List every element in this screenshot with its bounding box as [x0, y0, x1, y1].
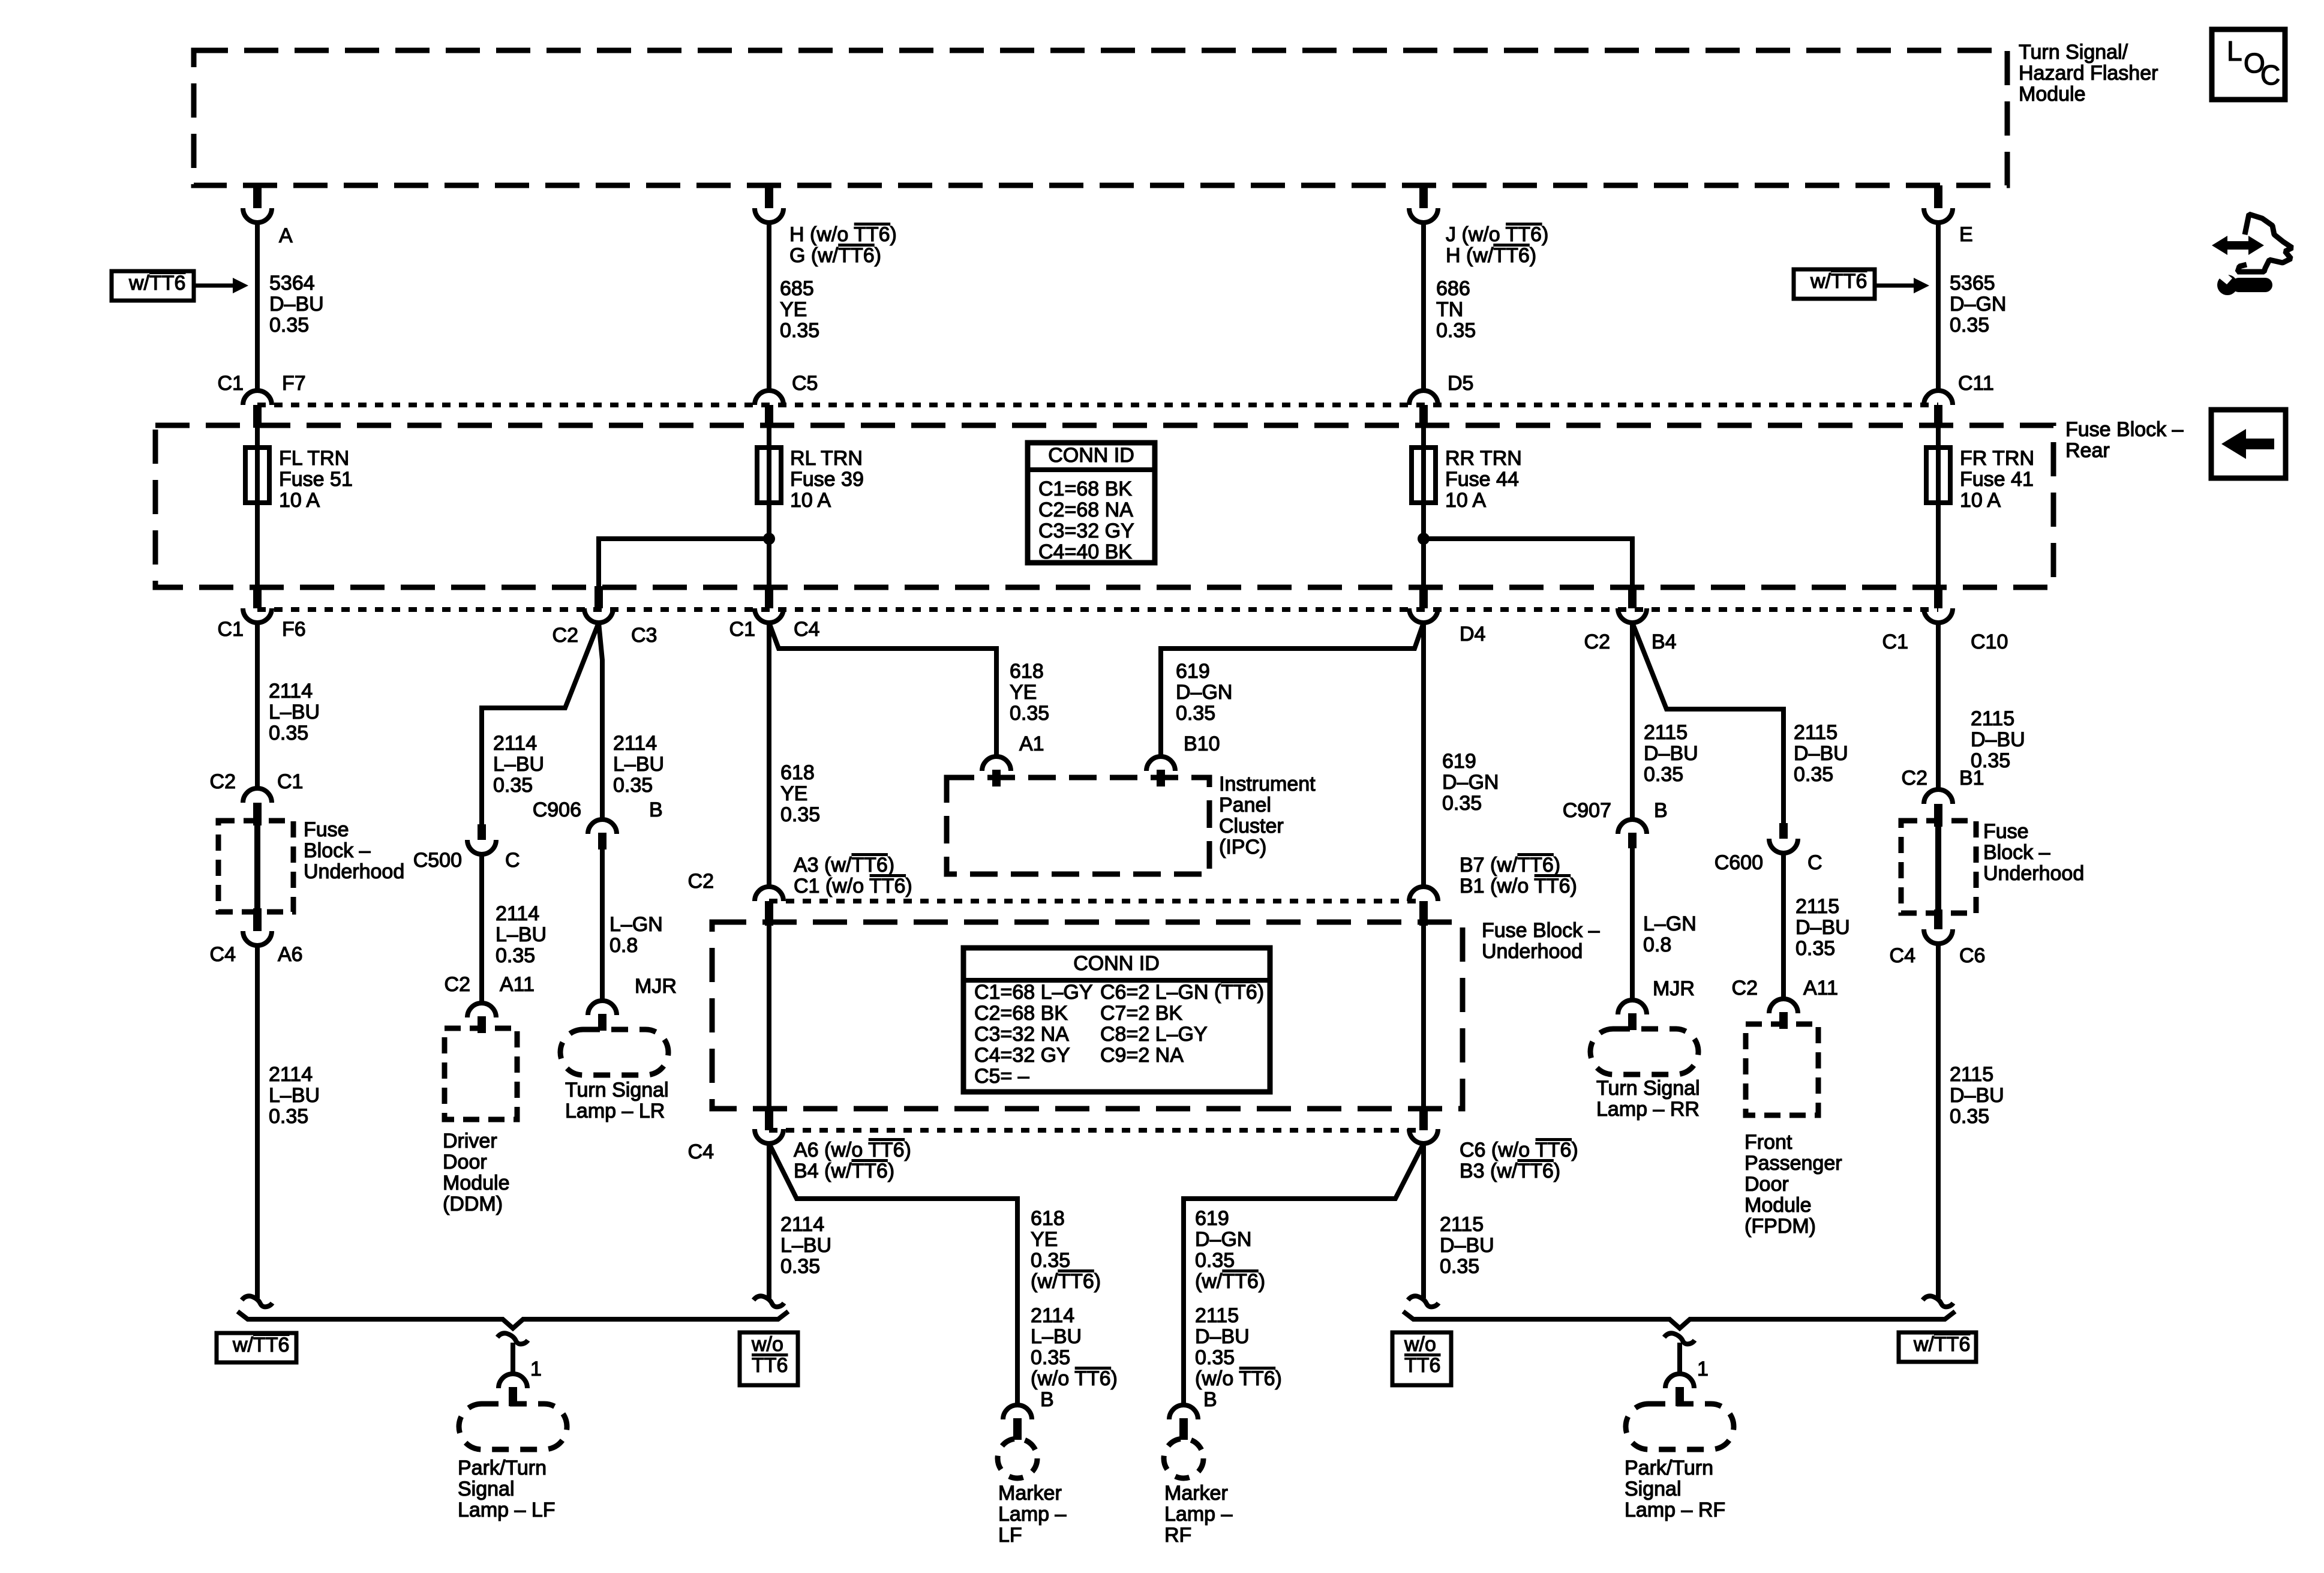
- svg-text:C1: C1: [218, 372, 244, 395]
- svg-text:A1: A1: [1019, 733, 1044, 755]
- svg-text:10 A: 10 A: [790, 489, 831, 512]
- svg-text:Turn Signal: Turn Signal: [1596, 1077, 1700, 1100]
- pin C1/F6 out of Fuse Block Rear: [253, 586, 262, 608]
- svg-text:C5: C5: [792, 372, 818, 395]
- pin B into Marker Lamp RF: [1179, 1418, 1188, 1440]
- svg-text:Cluster: Cluster: [1219, 815, 1284, 837]
- svg-text:2115: 2115: [1795, 895, 1839, 918]
- svg-text:0.8: 0.8: [609, 934, 638, 957]
- svg-text:2114: 2114: [1031, 1304, 1074, 1327]
- svg-text:Fuse 51: Fuse 51: [279, 468, 353, 491]
- svg-text:C1: C1: [218, 618, 244, 641]
- svg-text:(w/o TT6): (w/o TT6): [1031, 1367, 1118, 1390]
- svg-text:C9=2 NA: C9=2 NA: [1100, 1044, 1184, 1067]
- svg-text:10 A: 10 A: [1445, 489, 1486, 512]
- wire L-GN 0.8 (C906 to LR lamp): [600, 849, 605, 1001]
- wire from RL TRN junction to C2/C3 exit: [599, 539, 769, 587]
- svg-text:2115: 2115: [1644, 721, 1688, 744]
- svg-text:L–BU: L–BU: [496, 923, 547, 946]
- svg-text:C2: C2: [1732, 977, 1758, 999]
- connector dome B (Marker RF): [1169, 1405, 1198, 1419]
- svg-text:Underhood: Underhood: [1983, 862, 2084, 885]
- svg-text:w/TT6: w/TT6: [232, 1334, 289, 1356]
- svg-text:RF: RF: [1164, 1524, 1191, 1547]
- svg-text:Fuse 41: Fuse 41: [1960, 468, 2034, 491]
- svg-text:Module: Module: [443, 1172, 510, 1194]
- Fuse Block - Underhood box (middle): [712, 922, 1463, 1109]
- pin C4/A6-B4 out of underhood box: [765, 1107, 773, 1130]
- fuse FR TRN Fuse 41: [1936, 428, 1941, 586]
- svg-text:Passenger: Passenger: [1744, 1152, 1842, 1175]
- svg-text:D–BU: D–BU: [1440, 1234, 1494, 1257]
- svg-text:Turn Signal: Turn Signal: [565, 1079, 669, 1101]
- svg-text:2114: 2114: [269, 1063, 313, 1086]
- svg-text:C8=2 L–GY: C8=2 L–GY: [1100, 1023, 1208, 1046]
- svg-text:619: 619: [1176, 660, 1210, 683]
- pin C11 into Fuse Block Rear: [1934, 405, 1942, 428]
- pin D4 out of Fuse Block Rear: [1419, 586, 1428, 608]
- connector dome D5: [1409, 391, 1438, 405]
- wire 2114 L-BU (F6 down): [255, 623, 260, 789]
- svg-text:CONN ID: CONN ID: [1073, 952, 1160, 975]
- icon: double-arrow and wrench (SI information symbol): [2212, 214, 2292, 295]
- Park/Turn Signal Lamp - LF symbol: [459, 1404, 567, 1449]
- wire 618/2114 to Marker Lamp LF: [769, 1143, 1017, 1406]
- svg-text:YE: YE: [1031, 1228, 1058, 1251]
- wire L-GN 0.8 (C907 to RR lamp): [1630, 848, 1635, 1000]
- svg-text:Block –: Block –: [304, 839, 371, 862]
- svg-text:C2=68 BK: C2=68 BK: [974, 1002, 1068, 1025]
- pin C2/B4 out of Fuse Block Rear: [1628, 586, 1637, 608]
- svg-text:Door: Door: [443, 1151, 487, 1173]
- pin of module terminal J/H: [1419, 185, 1428, 208]
- svg-text:C2: C2: [1584, 631, 1610, 653]
- connector dome C2/C1: [243, 788, 272, 803]
- svg-text:618: 618: [1031, 1207, 1065, 1230]
- svg-text:0.35: 0.35: [1440, 1255, 1479, 1278]
- connector cup terminal H/G: [755, 208, 783, 223]
- svg-text:C10: C10: [1971, 631, 2008, 653]
- svg-text:10 A: 10 A: [279, 489, 320, 512]
- svg-text:0.35: 0.35: [1794, 763, 1833, 786]
- CONN ID table (Fuse Block Underhood): [963, 948, 1270, 1092]
- wire 2114 L-BU (A6 down to splice): [255, 945, 260, 1298]
- svg-text:A11: A11: [500, 973, 535, 996]
- svg-text:D–BU: D–BU: [1644, 742, 1698, 765]
- svg-text:B7 (w/TT6): B7 (w/TT6): [1460, 854, 1560, 876]
- connector dome B7/B1: [1409, 887, 1438, 901]
- svg-text:(DDM): (DDM): [443, 1193, 503, 1215]
- svg-text:0.35: 0.35: [1010, 702, 1049, 725]
- connector cup C2/B4: [1618, 608, 1647, 623]
- wire 619 D-GN (D4 down): [1421, 623, 1426, 888]
- svg-text:C7=2 BK: C7=2 BK: [1100, 1002, 1182, 1025]
- svg-text:Module: Module: [2019, 83, 2086, 106]
- connector cup terminal E: [1924, 208, 1953, 223]
- svg-text:Marker: Marker: [998, 1482, 1062, 1505]
- svg-text:C4: C4: [688, 1140, 714, 1163]
- pin B into Marker Lamp LF: [1013, 1418, 1022, 1440]
- svg-text:0.35: 0.35: [1176, 702, 1215, 725]
- svg-text:0.8: 0.8: [1643, 933, 1671, 956]
- svg-text:L–GN: L–GN: [1643, 912, 1697, 935]
- svg-text:A: A: [279, 224, 293, 247]
- connector dome C1/F7: [243, 391, 272, 405]
- icon: left arrow box: [2211, 410, 2286, 478]
- svg-text:C4: C4: [1890, 944, 1915, 967]
- svg-text:B: B: [649, 798, 663, 821]
- svg-text:YE: YE: [780, 298, 807, 321]
- wire 685 YE (H/G to C5): [767, 221, 771, 392]
- arrow from w/TT6 box to wire 5365: [1876, 284, 1915, 288]
- Front Passenger Door Module box: [1746, 1024, 1818, 1115]
- svg-text:C: C: [1807, 851, 1822, 874]
- svg-text:618: 618: [780, 761, 815, 784]
- svg-text:C2: C2: [688, 870, 714, 893]
- wire 5365 D-GN (E to C11): [1936, 221, 1941, 392]
- svg-text:C907: C907: [1563, 799, 1611, 822]
- svg-text:L: L: [2227, 35, 2242, 67]
- svg-text:618: 618: [1010, 660, 1044, 683]
- Turn Signal Lamp - LR symbol: [560, 1029, 668, 1075]
- svg-text:Module: Module: [1744, 1194, 1812, 1217]
- svg-text:E: E: [1959, 223, 1973, 246]
- svg-text:Driver: Driver: [443, 1130, 497, 1152]
- svg-text:Underhood: Underhood: [1482, 940, 1583, 963]
- Fuse Block - Underhood box (left): [218, 821, 293, 912]
- wire 618 through underhood box: [767, 923, 771, 1109]
- w/TT6 option box (left): [112, 271, 194, 301]
- svg-text:0.35: 0.35: [613, 774, 653, 797]
- pin of module terminal A: [253, 185, 262, 208]
- svg-text:C6=2 L–GN (TT6): C6=2 L–GN (TT6): [1100, 981, 1264, 1004]
- svg-text:Fuse Block –: Fuse Block –: [1482, 919, 1600, 942]
- pin A11 into FPDM: [1779, 1012, 1788, 1029]
- pin C907/B: [1628, 833, 1637, 848]
- wire 2115 D-BU (C10 down): [1936, 623, 1941, 791]
- svg-text:C2: C2: [210, 770, 236, 793]
- pin C1/C10 out of Fuse Block Rear: [1934, 586, 1942, 608]
- module box: Turn Signal/Hazard Flasher Module: [194, 50, 2007, 185]
- connector cup C1/F6: [243, 608, 272, 623]
- svg-text:C: C: [2260, 59, 2280, 91]
- pin A3/C1 into Fuse Block Underhood: [765, 901, 773, 926]
- svg-text:2114: 2114: [493, 732, 537, 755]
- svg-text:C1=68 L–GY: C1=68 L–GY: [974, 981, 1093, 1004]
- wire through right underhood box: [1935, 823, 1941, 911]
- svg-text:0.35: 0.35: [1644, 763, 1683, 786]
- svg-text:L–BU: L–BU: [493, 753, 544, 776]
- connector dome C2/B1: [1924, 789, 1953, 804]
- svg-text:0.35: 0.35: [780, 319, 819, 342]
- w/o TT6 option box (right-mid): [1392, 1332, 1451, 1385]
- w/TT6 option box (right): [1794, 269, 1875, 299]
- pin C2/B1 into Fuse Block Underhood: [1934, 804, 1942, 827]
- wire 2115 D-BU (C600 to FPDM): [1781, 853, 1786, 998]
- svg-text:Front: Front: [1744, 1131, 1792, 1154]
- svg-text:2115: 2115: [1971, 707, 2014, 730]
- svg-text:B: B: [1203, 1388, 1217, 1411]
- pin C2/C1 into Fuse Block Underhood: [253, 803, 262, 825]
- connector cup C4/C6: [1924, 929, 1953, 944]
- connector dome C2/A11 (FPDM): [1769, 999, 1798, 1013]
- svg-text:B10: B10: [1184, 733, 1220, 755]
- svg-text:TN: TN: [1436, 298, 1463, 321]
- svg-text:D–BU: D–BU: [1195, 1325, 1250, 1348]
- connector dome C11: [1924, 391, 1953, 405]
- svg-text:C11: C11: [1958, 372, 1994, 395]
- svg-text:D4: D4: [1460, 623, 1485, 646]
- pin MJR into LR lamp: [598, 1014, 606, 1031]
- connector dome C2/A11 (DDM): [467, 1003, 496, 1017]
- wire hook below brace RF: [1664, 1333, 1695, 1344]
- connector cup C4/A6-B4: [755, 1129, 783, 1143]
- svg-text:2114: 2114: [269, 680, 313, 703]
- connector cup C500/C: [467, 840, 496, 854]
- wire 2115 D-BU (C6 down to splice): [1936, 944, 1941, 1298]
- wire through left underhood box: [254, 823, 260, 909]
- svg-text:FL TRN: FL TRN: [279, 447, 349, 470]
- svg-text:D–BU: D–BU: [1794, 742, 1848, 765]
- wire 619 through underhood box: [1421, 923, 1426, 1109]
- svg-text:D–BU: D–BU: [1950, 1084, 2004, 1107]
- svg-text:0.35: 0.35: [269, 722, 308, 745]
- wire from RR TRN junction to C2/B4 exit: [1424, 539, 1632, 587]
- svg-text:B: B: [1654, 799, 1668, 822]
- svg-text:C1: C1: [277, 770, 303, 793]
- wire end hook (5365 branch): [1923, 1296, 1953, 1307]
- svg-text:0.35: 0.35: [1442, 792, 1482, 815]
- svg-text:C500: C500: [413, 849, 462, 872]
- connector dome B10: [1146, 757, 1175, 771]
- svg-text:(IPC): (IPC): [1219, 836, 1266, 858]
- svg-text:Marker: Marker: [1164, 1482, 1228, 1505]
- connector cup terminal J/H: [1409, 208, 1438, 223]
- pin C4/A6 out of Fuse Block Underhood: [253, 908, 262, 931]
- svg-text:w/o: w/o: [1404, 1333, 1436, 1356]
- svg-text:Rear: Rear: [2065, 439, 2110, 462]
- pin MJR into RR lamp: [1628, 1013, 1637, 1030]
- svg-text:5364: 5364: [269, 272, 315, 295]
- svg-text:Park/Turn: Park/Turn: [1625, 1457, 1713, 1479]
- connector dome C907/B: [1618, 819, 1647, 834]
- connector dome C5: [755, 391, 783, 405]
- Marker Lamp - LF symbol: [998, 1439, 1037, 1478]
- svg-text:RL TRN: RL TRN: [790, 447, 863, 470]
- connector cup C1/C4: [755, 608, 783, 623]
- svg-text:Instrument: Instrument: [1219, 773, 1316, 795]
- svg-text:MJR: MJR: [635, 975, 677, 998]
- svg-text:C3=32 GY: C3=32 GY: [1038, 520, 1134, 542]
- svg-text:YE: YE: [780, 782, 807, 805]
- svg-text:J (w/o TT6): J (w/o TT6): [1446, 223, 1548, 246]
- pin B10 into IPC: [1157, 770, 1165, 786]
- svg-text:Fuse: Fuse: [1983, 820, 2029, 843]
- connector dome A1: [982, 757, 1011, 771]
- svg-text:D–GN: D–GN: [1195, 1228, 1251, 1251]
- svg-text:2114: 2114: [780, 1213, 824, 1236]
- svg-text:0.35: 0.35: [496, 944, 535, 967]
- pin A11 into DDM: [478, 1016, 486, 1033]
- svg-text:2114: 2114: [496, 902, 539, 925]
- svg-text:A3 (w/TT6): A3 (w/TT6): [794, 854, 894, 876]
- arrow from w/TT6 box to wire 5364: [195, 284, 234, 288]
- connector dome 1 (LF): [499, 1374, 527, 1388]
- svg-text:0.35: 0.35: [1195, 1249, 1235, 1272]
- svg-text:Fuse 44: Fuse 44: [1445, 468, 1519, 491]
- wire 5364 D-BU (circuit A to C1/F7): [255, 221, 260, 392]
- junction node on RL TRN wire: [763, 533, 775, 545]
- pin C2/C3 out of Fuse Block Rear: [594, 586, 603, 608]
- pin C5 into Fuse Block Rear: [765, 405, 773, 428]
- svg-text:Fuse: Fuse: [304, 818, 349, 841]
- svg-text:1: 1: [530, 1358, 542, 1380]
- dotted harness connector line (row A3/B7): [769, 899, 1424, 903]
- splice brace LF: [238, 1311, 788, 1328]
- svg-text:2115: 2115: [1950, 1063, 1993, 1086]
- svg-text:H (w/o TT6): H (w/o TT6): [789, 223, 897, 246]
- svg-text:C5= –: C5= –: [974, 1065, 1029, 1088]
- svg-text:C3: C3: [631, 624, 657, 647]
- svg-text:C906: C906: [533, 798, 581, 821]
- svg-text:L–BU: L–BU: [780, 1234, 831, 1257]
- svg-text:Lamp – LR: Lamp – LR: [565, 1100, 665, 1122]
- wire to Park/Turn Lamp LF: [511, 1343, 515, 1375]
- Fuse Block - Underhood box (right): [1901, 821, 1976, 913]
- svg-text:0.35: 0.35: [269, 1105, 308, 1128]
- svg-text:D–GN: D–GN: [1442, 771, 1499, 794]
- connector cup C1/C10: [1924, 608, 1953, 623]
- svg-text:619: 619: [1195, 1207, 1229, 1230]
- svg-text:0.35: 0.35: [780, 803, 820, 826]
- Park/Turn Signal Lamp - RF symbol: [1626, 1404, 1734, 1449]
- connector cup C600/C: [1769, 839, 1798, 853]
- svg-text:B1: B1: [1959, 767, 1984, 789]
- wire B4 branch to C600: [1632, 623, 1783, 823]
- svg-text:FR TRN: FR TRN: [1960, 447, 2034, 470]
- svg-text:C600: C600: [1715, 851, 1763, 874]
- svg-text:Signal: Signal: [1625, 1478, 1682, 1500]
- wire 2114 L-BU (C500 to DDM): [479, 854, 484, 1002]
- svg-text:C2: C2: [553, 624, 578, 647]
- svg-text:0.35: 0.35: [1950, 314, 1989, 337]
- svg-text:619: 619: [1442, 750, 1476, 773]
- connector cup terminal A: [243, 208, 272, 223]
- svg-text:Lamp –: Lamp –: [998, 1503, 1066, 1526]
- connector dome MJR (LR): [588, 1001, 617, 1015]
- wire end hook (2114 branch): [753, 1296, 784, 1307]
- pin B7/B1 into Fuse Block Underhood: [1419, 901, 1428, 926]
- svg-text:L–BU: L–BU: [613, 753, 664, 776]
- svg-text:B4: B4: [1652, 631, 1677, 653]
- svg-text:0.35: 0.35: [780, 1255, 820, 1278]
- svg-text:MJR: MJR: [1653, 977, 1695, 1000]
- svg-text:686: 686: [1436, 277, 1470, 300]
- junction node on RR TRN wire: [1418, 533, 1430, 545]
- svg-text:A6: A6: [278, 943, 303, 966]
- svg-text:C4=32 GY: C4=32 GY: [974, 1044, 1070, 1067]
- wire end hook (5364 branch): [242, 1296, 272, 1307]
- svg-text:Turn Signal/: Turn Signal/: [2019, 41, 2128, 64]
- pin C600: [1779, 823, 1788, 839]
- svg-text:10 A: 10 A: [1960, 489, 2001, 512]
- wire hook below brace LF: [497, 1333, 528, 1344]
- svg-text:C4: C4: [794, 618, 819, 641]
- svg-text:Underhood: Underhood: [304, 860, 404, 883]
- pin C6-B3 out of underhood box: [1419, 1107, 1428, 1130]
- svg-text:L–BU: L–BU: [269, 701, 320, 724]
- svg-text:B: B: [1040, 1388, 1054, 1411]
- svg-text:0.35: 0.35: [1436, 319, 1476, 342]
- svg-text:C4: C4: [210, 943, 236, 966]
- connector cup D4: [1409, 608, 1438, 623]
- svg-text:L–GN: L–GN: [609, 913, 663, 936]
- svg-text:(w/TT6): (w/TT6): [1195, 1270, 1265, 1293]
- connector cup C4/A6: [243, 931, 272, 945]
- wire C2 branch to C907: [1630, 623, 1635, 819]
- svg-text:2115: 2115: [1794, 721, 1837, 744]
- pin C906/B: [598, 833, 606, 849]
- svg-text:H (w/TT6): H (w/TT6): [1446, 244, 1536, 267]
- Instrument Panel Cluster box: [947, 778, 1209, 874]
- pin 1 into Park/Turn Lamp LF: [509, 1387, 517, 1406]
- wire 618 YE (C4 down): [767, 623, 771, 888]
- svg-text:G (w/TT6): G (w/TT6): [789, 244, 881, 267]
- Turn Signal Lamp - RR symbol: [1590, 1029, 1698, 1074]
- pin C1/C4 out of Fuse Block Rear: [765, 586, 773, 608]
- svg-text:D–GN: D–GN: [1176, 681, 1232, 704]
- pin of module terminal E: [1934, 185, 1942, 208]
- svg-text:0.35: 0.35: [1795, 937, 1835, 960]
- svg-text:Block –: Block –: [1983, 841, 2050, 864]
- svg-text:w/TT6: w/TT6: [1810, 270, 1867, 293]
- connector cup C6/B3: [1409, 1129, 1438, 1143]
- svg-text:Hazard Flasher: Hazard Flasher: [2019, 62, 2158, 85]
- svg-text:Lamp –: Lamp –: [1164, 1503, 1232, 1526]
- wire 619 D-GN (D4 to IPC B10): [1161, 623, 1424, 758]
- svg-text:w/TT6: w/TT6: [128, 272, 185, 295]
- icon: LOC reference box: [2212, 29, 2285, 100]
- Marker Lamp - RF symbol: [1164, 1439, 1203, 1478]
- svg-text:D–BU: D–BU: [269, 293, 324, 316]
- svg-text:C6 (w/o TT6): C6 (w/o TT6): [1460, 1139, 1578, 1161]
- fuse RR TRN Fuse 44: [1421, 428, 1426, 586]
- connector dome 1 (RF): [1665, 1374, 1694, 1388]
- w/o TT6 option box (left-mid): [740, 1332, 798, 1385]
- svg-text:YE: YE: [1010, 681, 1037, 704]
- svg-text:685: 685: [780, 277, 814, 300]
- svg-text:C2=68 NA: C2=68 NA: [1038, 499, 1133, 521]
- dotted harness connector line (row F6/C3/C4/D4/B4/C10): [257, 607, 1938, 612]
- svg-text:Lamp – LF: Lamp – LF: [458, 1499, 556, 1521]
- svg-text:L–BU: L–BU: [269, 1084, 320, 1107]
- svg-text:Signal: Signal: [458, 1478, 515, 1500]
- svg-text:D5: D5: [1448, 372, 1473, 395]
- svg-text:B4 (w/TT6): B4 (w/TT6): [794, 1160, 894, 1182]
- svg-text:(w/o TT6): (w/o TT6): [1195, 1367, 1282, 1390]
- svg-text:2114: 2114: [613, 732, 657, 755]
- fuse FL TRN Fuse 51: [255, 428, 260, 586]
- svg-text:0.35: 0.35: [493, 774, 533, 797]
- svg-text:D–BU: D–BU: [1795, 916, 1850, 939]
- connector dome C906/B: [588, 819, 617, 834]
- svg-text:C2: C2: [1902, 767, 1927, 789]
- fuse RL TRN Fuse 39: [767, 428, 771, 586]
- svg-text:Fuse 39: Fuse 39: [790, 468, 864, 491]
- svg-text:A6 (w/o TT6): A6 (w/o TT6): [794, 1139, 911, 1161]
- connector dome B (Marker LF): [1003, 1405, 1032, 1419]
- svg-text:0.35: 0.35: [1031, 1346, 1070, 1369]
